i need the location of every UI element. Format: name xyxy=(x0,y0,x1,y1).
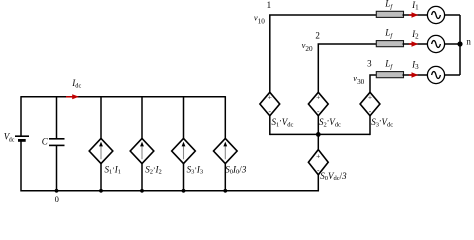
wire row2 right xyxy=(444,43,460,45)
svg-text:+: + xyxy=(316,92,320,101)
wire capacitor branch upper xyxy=(56,96,58,139)
current arrow I_dc xyxy=(66,94,79,99)
wire S2 lower xyxy=(317,116,319,135)
junction dot branch4 bottom xyxy=(223,189,227,193)
svg-text:S3’Vdc: S3’Vdc xyxy=(371,117,393,128)
wire branch3 upper xyxy=(183,96,185,139)
svg-text:I1: I1 xyxy=(411,0,419,12)
svg-text:3: 3 xyxy=(367,59,372,69)
wire vcvs bottom bus xyxy=(270,133,370,135)
VCVS S3·Vdc xyxy=(360,92,380,116)
svg-text:0: 0 xyxy=(55,194,59,204)
wire S3 lower xyxy=(369,116,371,135)
svg-text:S0Vdc/3: S0Vdc/3 xyxy=(320,171,347,182)
wire branch2 upper xyxy=(141,96,143,139)
wire branch4 upper xyxy=(224,96,226,139)
svg-text:v10: v10 xyxy=(254,12,265,25)
wire right vertical xyxy=(459,15,461,75)
svg-text:Lf: Lf xyxy=(384,59,393,71)
svg-text:v30: v30 xyxy=(353,73,364,86)
wire branch1 lower xyxy=(100,163,102,192)
wire capacitor branch lower xyxy=(56,145,58,191)
svg-text:S0I0/3: S0I0/3 xyxy=(225,164,247,175)
wire branch2 lower xyxy=(141,163,143,192)
wire S0 upper xyxy=(317,134,319,150)
ac source row2 xyxy=(427,35,444,52)
svg-text:1: 1 xyxy=(267,0,272,10)
svg-text:I3: I3 xyxy=(411,60,419,72)
svg-text:S3’I3: S3’I3 xyxy=(187,164,204,175)
svg-text:Vdc: Vdc xyxy=(4,132,15,144)
wire top bus left circuit xyxy=(21,96,225,98)
current arrow I3 xyxy=(409,72,419,78)
battery V_dc xyxy=(15,136,29,140)
junction dot branch3 bottom xyxy=(182,189,186,193)
svg-text:S2’I2: S2’I2 xyxy=(145,164,162,175)
svg-text:Lf: Lf xyxy=(384,28,393,40)
wire row3 mid xyxy=(403,74,428,76)
ac source row3 xyxy=(427,66,444,83)
svg-text:S2’Vdc: S2’Vdc xyxy=(319,117,341,128)
svg-text:n: n xyxy=(466,37,471,47)
wire row1 right xyxy=(444,14,460,16)
wire left vertical upper xyxy=(20,96,22,136)
current arrow I2 xyxy=(409,41,419,47)
current source S0I0/3 xyxy=(214,138,238,163)
svg-text:S1’Vdc: S1’Vdc xyxy=(272,117,294,128)
wire phase3 riser xyxy=(370,75,376,92)
svg-text:v20: v20 xyxy=(302,40,313,53)
current source S3·I3 xyxy=(172,138,196,163)
inductor Lf row3 xyxy=(376,72,403,78)
VCVS S2·Vdc xyxy=(308,92,328,116)
VCVS S1·Vdc xyxy=(260,92,280,116)
junction dot branch2 bottom xyxy=(140,189,144,193)
junction dot branch1 bottom xyxy=(99,189,103,193)
wire S1 lower xyxy=(269,116,271,135)
wire branch4 lower xyxy=(224,163,226,192)
wire phase2 riser xyxy=(318,44,376,92)
svg-text:S1’I1: S1’I1 xyxy=(105,164,122,175)
wire row1 mid xyxy=(403,14,428,16)
svg-text:C: C xyxy=(42,137,49,147)
svg-text:Lf: Lf xyxy=(384,0,393,11)
svg-text:+: + xyxy=(268,92,272,101)
ac source row1 xyxy=(427,6,444,23)
svg-text:+: + xyxy=(316,151,320,160)
wire row2 mid xyxy=(403,43,428,45)
wire phase1 riser xyxy=(270,15,376,92)
current source S2·I2 xyxy=(130,138,154,163)
wire branch3 lower xyxy=(183,163,185,192)
svg-text:2: 2 xyxy=(315,31,320,41)
junction dot node n xyxy=(457,41,462,46)
svg-text:+: + xyxy=(368,92,372,101)
svg-text:I2: I2 xyxy=(411,29,419,41)
wire branch1 upper xyxy=(100,96,102,139)
wire left vertical lower xyxy=(20,140,22,191)
capacitor C xyxy=(49,139,65,146)
inductor Lf row1 xyxy=(376,11,403,17)
current source S1·I1 xyxy=(89,138,113,163)
wire row3 right xyxy=(444,74,460,76)
inductor Lf row2 xyxy=(376,41,403,47)
junction dot capacitor bottom xyxy=(55,189,59,193)
wire bottom bus xyxy=(21,190,318,192)
wire S0 lower to bottom bus xyxy=(317,175,319,192)
VCVS S0·Vdc/3 xyxy=(308,150,328,175)
svg-text:Idc: Idc xyxy=(71,78,81,89)
current arrow I1 xyxy=(409,12,419,18)
junction dot vcvs bus xyxy=(316,132,321,137)
